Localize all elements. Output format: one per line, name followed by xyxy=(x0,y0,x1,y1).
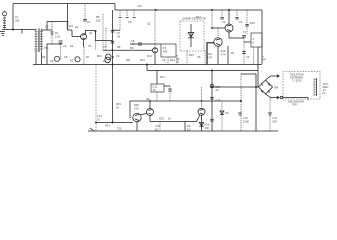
transistor Q5 xyxy=(133,113,141,121)
capacitor C11a xyxy=(242,36,245,38)
svg-text:500: 500 xyxy=(273,120,278,124)
wire agc link xyxy=(95,40,113,42)
transistor Q2 xyxy=(152,48,157,53)
transistor Q1 xyxy=(81,34,87,40)
svg-text:.05: .05 xyxy=(117,35,121,39)
svg-text:C8: C8 xyxy=(131,39,135,43)
wire bridge dc feed xyxy=(210,86,259,88)
svg-text:C3: C3 xyxy=(63,44,67,48)
svg-text:R23: R23 xyxy=(159,117,164,121)
svg-text:R21: R21 xyxy=(105,124,110,128)
svg-text:C9: C9 xyxy=(117,31,121,35)
capacitor C4 from rail xyxy=(84,4,86,20)
svg-text:R13: R13 xyxy=(147,54,152,58)
wire diagonal to Q7 xyxy=(197,115,200,122)
wire Q6 emitter xyxy=(149,116,151,122)
bottom rail top section xyxy=(33,64,262,66)
capacitor C9 leg xyxy=(176,55,178,65)
wire oscillator top link xyxy=(47,21,68,23)
ground mark xyxy=(90,128,94,131)
svg-text:Q1: Q1 xyxy=(89,31,93,35)
wire c-leg xyxy=(113,29,121,31)
svg-text:1K: 1K xyxy=(168,117,171,121)
transformer T1 core xyxy=(39,29,40,53)
wire left vertical tuning xyxy=(12,4,14,30)
capacitor C14a right xyxy=(246,10,248,34)
resistor R15b hang xyxy=(186,50,188,65)
wire speaker return xyxy=(257,47,259,71)
svg-text:R14: R14 xyxy=(170,58,175,62)
svg-text:R11: R11 xyxy=(126,58,131,62)
svg-text:SP: SP xyxy=(263,58,267,62)
svg-text:R19: R19 xyxy=(116,102,121,106)
wire Q3 emitter xyxy=(217,46,219,64)
svg-text:R16: R16 xyxy=(207,52,212,56)
transistor Q4 xyxy=(225,24,233,32)
wire Q1 collector xyxy=(86,31,96,41)
wire lower top rail xyxy=(147,70,258,72)
svg-text:1K: 1K xyxy=(103,59,106,63)
svg-text:C4: C4 xyxy=(246,55,250,59)
wire detector out heavy xyxy=(207,43,214,65)
svg-text:C6: C6 xyxy=(128,20,132,24)
wire drop xyxy=(169,86,171,101)
transistor Q7 xyxy=(198,108,205,115)
wire Q2 base xyxy=(103,49,152,51)
wire to box xyxy=(244,41,251,43)
wire Q2 emitter xyxy=(154,53,156,65)
capacitor C10 filter xyxy=(240,74,242,131)
svg-text:+9V: +9V xyxy=(137,4,142,8)
wire Q1 base xyxy=(68,30,81,37)
svg-text:C1: C1 xyxy=(15,15,19,19)
svg-text:1000: 1000 xyxy=(243,120,249,124)
svg-text:4.7K: 4.7K xyxy=(221,53,227,57)
wire Q4 base xyxy=(211,12,213,28)
svg-text:R10: R10 xyxy=(97,54,102,58)
svg-text:C8: C8 xyxy=(50,59,54,63)
wire mixer node xyxy=(47,43,62,45)
node junctions xyxy=(112,64,114,66)
wire long vertical feed xyxy=(112,10,114,123)
svg-text:C2: C2 xyxy=(45,25,49,29)
svg-text:D3: D3 xyxy=(225,111,229,115)
wire link xyxy=(164,85,170,87)
wire base feed xyxy=(96,122,133,124)
svg-text:750: 750 xyxy=(117,127,122,131)
svg-text:C2: C2 xyxy=(222,20,226,24)
dashed box detector xyxy=(180,21,204,51)
bridge rectifier BR1 xyxy=(259,80,273,94)
svg-text:4.7K: 4.7K xyxy=(207,56,213,60)
svg-text:10K: 10K xyxy=(96,19,101,23)
svg-text:C11: C11 xyxy=(273,116,278,120)
resistor R23 wire xyxy=(150,121,197,123)
wire Q3 collector up xyxy=(217,28,219,38)
wire T1 secondary top xyxy=(42,29,53,31)
svg-text:C7: C7 xyxy=(103,45,107,49)
resistor R3 from top rail xyxy=(67,4,69,31)
wire regulator output rail xyxy=(130,100,241,102)
svg-text:R6: R6 xyxy=(42,55,46,59)
node tuning junction xyxy=(12,29,14,31)
svg-text:R4: R4 xyxy=(70,44,74,48)
svg-text:R7: R7 xyxy=(70,59,74,63)
svg-text:R20: R20 xyxy=(134,103,139,107)
zener D3 xyxy=(221,101,223,131)
ground antenna xyxy=(0,32,5,36)
transistor Q1b double xyxy=(106,54,112,60)
ground rail bottom xyxy=(88,130,278,132)
svg-text:C10: C10 xyxy=(243,116,248,120)
capacitor trimmer tick xyxy=(21,30,23,34)
wire antenna node horizontal xyxy=(2,29,36,31)
wire right edge vertical xyxy=(261,10,263,64)
svg-text:Q5: Q5 xyxy=(146,97,150,101)
wire Q4 collector xyxy=(228,10,230,24)
lower left faint vertical xyxy=(95,65,97,132)
wire drop to lower rail xyxy=(146,65,148,71)
svg-text:C8: C8 xyxy=(64,55,68,59)
zener D2 xyxy=(199,115,203,131)
capacitor ticks on +9V rail xyxy=(120,10,134,17)
svg-text:IN: IN xyxy=(323,91,326,95)
wire Q5 emitter down xyxy=(136,122,138,131)
wire Q5-Q6 link xyxy=(141,114,147,115)
wire Q6 collector xyxy=(149,101,151,108)
svg-text:Q2: Q2 xyxy=(147,22,151,26)
svg-text:455: 455 xyxy=(163,50,168,54)
resistor R17 hang xyxy=(156,71,158,85)
wire T3 leg xyxy=(167,57,169,65)
resistor R18 hang xyxy=(227,46,229,65)
electrolytic C8a xyxy=(54,56,59,61)
transformer T4 winding xyxy=(316,78,318,96)
wire Q1 emitter xyxy=(83,40,85,48)
wire top rail +9V xyxy=(115,9,262,11)
svg-text:R7: R7 xyxy=(86,55,90,59)
capacitor C11 filter xyxy=(269,98,271,132)
capacitor C2 trimmer xyxy=(51,22,53,45)
wire secondary bottom xyxy=(280,96,282,98)
svg-text:R12: R12 xyxy=(140,58,145,62)
svg-text:D2: D2 xyxy=(187,124,191,128)
svg-text:C14: C14 xyxy=(97,114,102,118)
IF can box xyxy=(161,44,176,57)
antenna jack J1 xyxy=(3,12,7,16)
svg-text:R16: R16 xyxy=(250,21,255,25)
wire corner step xyxy=(114,4,116,11)
diode D1 xyxy=(188,24,194,47)
wire osc leg xyxy=(46,44,48,65)
svg-text:C4: C4 xyxy=(87,20,91,24)
output transformer box xyxy=(251,33,262,47)
svg-text:BR: BR xyxy=(275,86,279,90)
svg-text:R14: R14 xyxy=(196,15,201,19)
electrolytic C9a xyxy=(75,57,80,62)
capacitor C13a on rail xyxy=(236,10,238,17)
wire bridge ac bottom xyxy=(266,94,280,99)
svg-text:R3: R3 xyxy=(70,24,74,28)
transistor Q3 xyxy=(214,38,222,46)
svg-text:R15: R15 xyxy=(221,49,226,53)
wire T1 legs xyxy=(36,52,42,65)
svg-text:TAP: TAP xyxy=(292,103,297,107)
svg-text:R5: R5 xyxy=(96,15,100,19)
wire bridge feed vertical xyxy=(257,71,259,87)
svg-text:R1: R1 xyxy=(55,31,59,35)
svg-text:R17: R17 xyxy=(160,75,165,79)
svg-text:15K: 15K xyxy=(44,46,49,50)
svg-text:→: → xyxy=(260,70,263,73)
svg-text:2K: 2K xyxy=(216,88,219,92)
transistor Q6 xyxy=(147,109,154,116)
resistor R5 hang xyxy=(102,14,104,50)
wire top rail upper xyxy=(13,3,115,5)
svg-text:2.2K: 2.2K xyxy=(55,35,61,39)
dashed box transformer module xyxy=(283,72,320,100)
svg-text:1K: 1K xyxy=(116,106,119,110)
svg-text:C13: C13 xyxy=(216,98,221,102)
wire Q2 collector xyxy=(154,12,156,48)
svg-text:470: 470 xyxy=(134,107,139,111)
svg-text:C9: C9 xyxy=(116,54,120,58)
wire Q4 emitter network xyxy=(229,32,244,38)
svg-text:C15: C15 xyxy=(155,124,160,128)
resistor R22 hang xyxy=(159,122,161,132)
wire regulator drop xyxy=(129,101,131,118)
capacitor C12a on rail xyxy=(221,10,223,17)
svg-text:T1 115V: T1 115V xyxy=(292,79,302,83)
svg-text:LINEAR DETECTOR: LINEAR DETECTOR xyxy=(182,17,206,21)
wire Q7 collector xyxy=(201,87,203,108)
svg-text:C3: C3 xyxy=(239,20,243,24)
inductor L1 antenna coil xyxy=(4,17,6,30)
svg-text:365: 365 xyxy=(15,19,20,23)
transformer T1 secondary xyxy=(41,29,43,53)
capacitor C8 link xyxy=(130,43,161,45)
svg-text:R8: R8 xyxy=(117,45,121,49)
svg-text:R2: R2 xyxy=(75,25,79,29)
svg-text:C6: C6 xyxy=(88,44,92,48)
capacitor C3 xyxy=(59,41,63,43)
capacitor C16 box xyxy=(151,84,164,92)
svg-text:C9: C9 xyxy=(162,58,166,62)
svg-text:R9: R9 xyxy=(130,46,134,50)
svg-text:1K: 1K xyxy=(153,88,156,92)
capacitor C13 lower xyxy=(210,98,213,122)
resistor R25 hang xyxy=(184,122,186,132)
capacitor C9 on feed xyxy=(111,31,114,33)
wire bridge ac top xyxy=(266,75,280,80)
svg-text:C8: C8 xyxy=(197,55,201,59)
svg-text:100: 100 xyxy=(205,126,210,130)
svg-text:R15: R15 xyxy=(189,53,194,57)
svg-text:R26: R26 xyxy=(205,123,210,127)
pot R24 xyxy=(211,71,213,132)
resistor R16 hang xyxy=(204,50,206,65)
transformer T1 primary xyxy=(35,29,37,53)
